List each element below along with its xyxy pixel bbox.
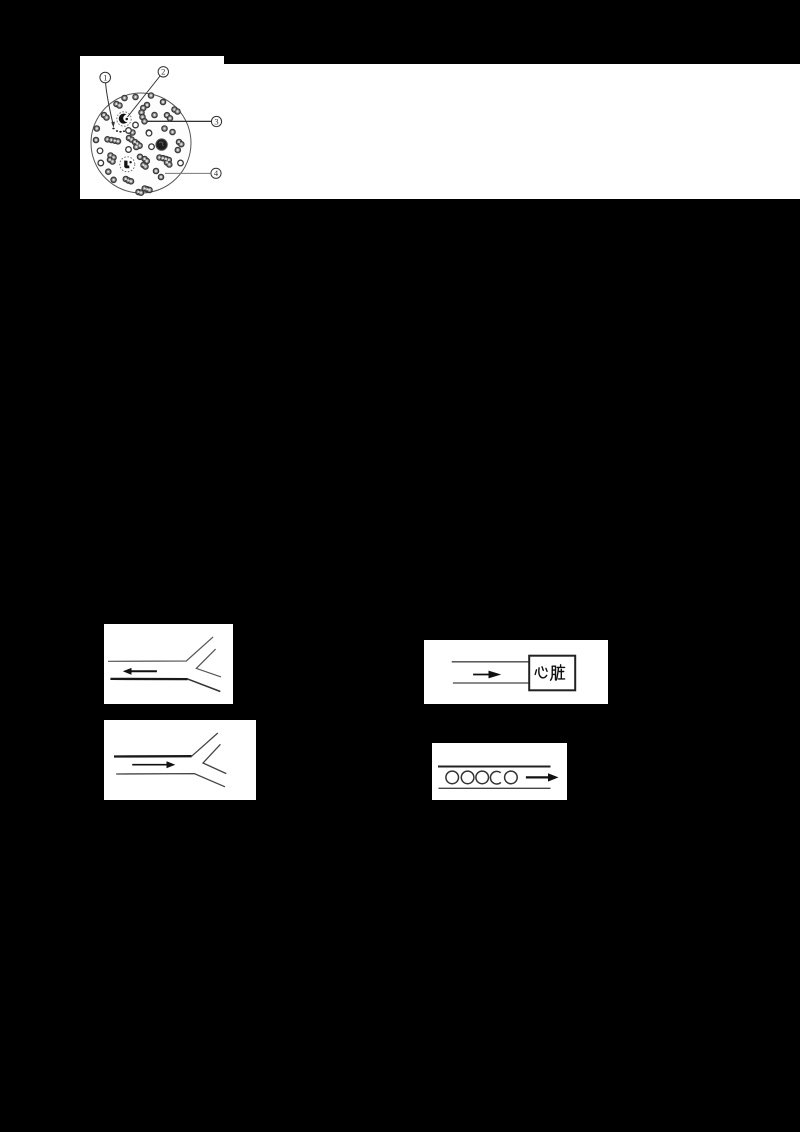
red blood cell 3 [476,771,489,784]
label 4 (circled) [211,168,221,178]
top white band left part [80,56,224,199]
label 2 (circled) [158,67,168,77]
vessel bottom wall (thick) [110,678,187,680]
svg-text:2: 2 [161,67,165,77]
capillary bottom wall [439,787,551,789]
heart label 心脏 (drawn strokes) [535,665,564,680]
white blood cell (U-shaped nucleus) [120,157,135,172]
vessel inner fork [196,649,221,677]
panel 4: capillary with single-file red blood cells [432,743,567,800]
leader line from label 3 [147,120,212,122]
flow arrow (right) [473,674,489,676]
leader line from label 2 [128,76,161,117]
heart box [529,656,575,691]
panel 2: artery (blood flows toward branches, arrow right) [104,720,256,800]
red blood cell 4 (C shaped) [490,771,500,784]
red blood cell 2 [461,771,474,784]
field-of-view circle [91,93,191,193]
red blood cells (gray donuts) [93,93,184,196]
flow arrow (right) [526,776,550,778]
leader line from label 4 [165,172,211,174]
white blood cell (lobed nucleus, pointed by label 2) [117,112,131,126]
red blood cell 5 [505,771,518,784]
vessel bottom wall [116,774,225,787]
top white band right part [224,64,800,199]
red blood cell 1 [446,771,459,784]
label 1 (circled) [100,67,222,179]
vessel inner fork [203,744,226,773]
svg-text:3: 3 [214,116,218,126]
vessel top wall (thick) [114,755,192,758]
vessel bottom line [453,682,530,684]
flow arrow (left) [130,670,157,672]
svg-text:1: 1 [103,72,107,82]
capillary top wall [438,766,551,768]
vessel top wall [108,637,213,661]
panel 1: vein (blood flows toward branch point, arrow left) [104,624,233,704]
red blood cells (open rings) [97,122,183,166]
large dark-stained cell [156,139,167,150]
microscope blood smear diagram [80,56,230,200]
flow arrow (right) [132,764,168,766]
platelets (pointed by label 1) [112,128,125,133]
label 3 (circled) [211,116,221,126]
vessel top line [452,661,530,663]
panel 3: vessel leading to heart box [424,640,608,704]
leader line from label 1 with arrowhead [106,83,113,124]
